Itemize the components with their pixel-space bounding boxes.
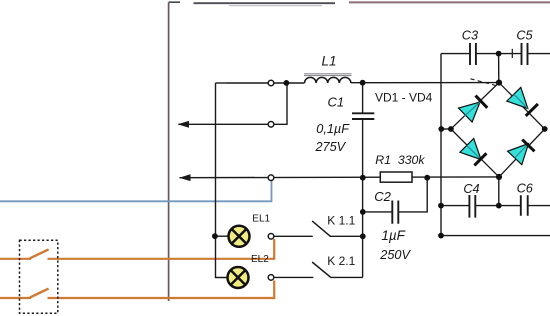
svg-text:K 1.1: K 1.1 xyxy=(327,214,355,228)
svg-text:250V: 250V xyxy=(379,248,411,262)
svg-text:0,1µF: 0,1µF xyxy=(316,122,350,136)
svg-text:C1: C1 xyxy=(328,95,345,110)
svg-text:EL2: EL2 xyxy=(251,254,269,265)
svg-text:K 2.1: K 2.1 xyxy=(327,254,355,268)
svg-text:275V: 275V xyxy=(315,140,347,154)
svg-text:1µF: 1µF xyxy=(381,228,405,243)
svg-text:C6: C6 xyxy=(517,181,534,195)
svg-text:C3: C3 xyxy=(462,29,478,43)
svg-text:C5: C5 xyxy=(516,29,533,43)
svg-text:C4: C4 xyxy=(463,182,479,196)
svg-text:R1 330k: R1 330k xyxy=(375,153,425,167)
svg-text:C2: C2 xyxy=(374,189,391,204)
svg-text:L1: L1 xyxy=(322,53,337,68)
svg-text:VD1 - VD4: VD1 - VD4 xyxy=(375,90,433,104)
svg-text:EL1: EL1 xyxy=(252,214,270,225)
